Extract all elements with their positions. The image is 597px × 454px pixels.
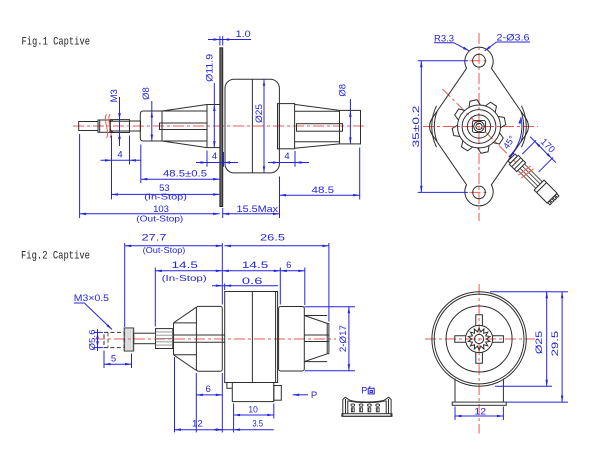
fig1 front bushing slot xyxy=(160,123,208,130)
connector wire break red xyxy=(519,165,531,177)
svg-text:4: 4 xyxy=(284,151,289,162)
svg-text:12: 12 xyxy=(192,419,203,430)
dim P arrow xyxy=(293,394,308,396)
dim 14.5 stator xyxy=(279,268,281,305)
fig2 rear cone xyxy=(304,316,327,324)
connector housing xyxy=(534,180,557,203)
fig2 centerline xyxy=(94,338,336,340)
fig2 right view outer circles xyxy=(432,292,526,386)
svg-text:Ø5.6: Ø5.6 xyxy=(87,329,97,350)
dim 15.5Max xyxy=(222,208,224,218)
fig1 front cylinder d11.9 xyxy=(207,104,220,106)
fig1 flange outline xyxy=(430,47,529,206)
fig1 rear cylinder d8 xyxy=(340,110,361,143)
svg-text:(In-Stop): (In-Stop) xyxy=(144,192,187,202)
fig1 front view centerline horizontal xyxy=(423,126,538,128)
fig2 screw hole lines xyxy=(174,334,225,336)
dim 53 In-Stop xyxy=(111,136,113,200)
fig1 front view centerline vertical xyxy=(478,33,480,221)
fig1 flange top hole centerline tick xyxy=(470,60,490,62)
svg-text:Ø25: Ø25 xyxy=(534,331,545,354)
dim 4 thread xyxy=(111,136,113,200)
dim 4 front cylinder xyxy=(206,151,208,167)
fig1 rear ring xyxy=(278,104,295,149)
fig1 shaft collar xyxy=(98,120,110,132)
svg-text:14.5: 14.5 xyxy=(172,260,198,271)
svg-text:(Out-Stop): (Out-Stop) xyxy=(136,214,183,224)
fig1 rear cone xyxy=(295,104,340,110)
fig1 hub square xyxy=(472,121,485,133)
fig2 stator block xyxy=(225,292,278,383)
fig2 rear shoulder xyxy=(304,315,327,317)
svg-text:35±0.2: 35±0.2 xyxy=(411,106,422,148)
fig1 shaft tip rod xyxy=(79,122,98,131)
fig1 rear slot xyxy=(297,124,343,132)
fig2 rear ring d17 xyxy=(279,307,305,372)
svg-text:3.5: 3.5 xyxy=(252,419,263,430)
svg-text:1.0: 1.0 xyxy=(236,29,251,40)
svg-text:6: 6 xyxy=(206,384,211,395)
dim 0.6 gap xyxy=(224,284,226,291)
P view connector outline xyxy=(343,397,391,416)
connector strain relief ribs xyxy=(508,154,517,163)
svg-text:Fig.1 Captive: Fig.1 Captive xyxy=(22,37,91,49)
svg-text:48.5±0.5: 48.5±0.5 xyxy=(163,169,207,180)
dim 48.5 rear xyxy=(359,148,361,200)
dim 170 xyxy=(522,140,536,154)
svg-text:29.5: 29.5 xyxy=(550,331,561,357)
fig2 right view centerlines xyxy=(425,338,535,340)
fig1 gear disc xyxy=(458,105,501,148)
dim d5.6 xyxy=(94,331,104,333)
dim 12 front xyxy=(174,357,176,432)
fig2 right view star gear xyxy=(468,328,490,350)
fig2 terminal latch xyxy=(274,386,282,401)
svg-text:12: 12 xyxy=(474,407,486,418)
fig2 front cone xyxy=(174,307,197,323)
dim 48.5+-0.5 xyxy=(140,145,142,184)
dim 27.7 Out-Stop xyxy=(124,243,126,327)
fig1 centerline xyxy=(73,125,365,127)
svg-text:M3: M3 xyxy=(109,89,120,102)
svg-text:Fig.2 Captive: Fig.2 Captive xyxy=(21,251,90,263)
fig1 mounting plate xyxy=(220,48,223,207)
dim 1.0 plate thickness xyxy=(219,36,221,45)
fig1 motor body xyxy=(225,79,279,173)
P view pins xyxy=(351,404,355,406)
svg-text:10: 10 xyxy=(248,404,257,415)
dim 14.5 In-Stop xyxy=(154,268,156,327)
svg-text:15.5Max: 15.5Max xyxy=(237,204,279,215)
svg-text:Ø8: Ø8 xyxy=(338,84,349,97)
fig1 flange top hole xyxy=(473,54,486,67)
dim 6 front ring xyxy=(195,373,197,432)
dim 29.5 xyxy=(552,291,568,293)
dim 35+-0.2 xyxy=(418,60,468,62)
connector pins xyxy=(555,194,559,198)
dim 2-d17 xyxy=(305,306,356,308)
dim 5 xyxy=(103,351,105,369)
P view bottom plate xyxy=(342,414,392,417)
dim 103 Out-Stop xyxy=(79,134,81,218)
fig1 center hole xyxy=(474,121,484,131)
fig2 leadscrew rod xyxy=(134,333,156,344)
svg-text:14.5: 14.5 xyxy=(242,260,268,271)
svg-text:27.7: 27.7 xyxy=(142,233,167,244)
fig2 rear hole lines xyxy=(305,334,329,336)
svg-text:6: 6 xyxy=(286,260,291,271)
fig2 terminal tab xyxy=(227,383,232,389)
dim 45 degree arc xyxy=(509,117,522,157)
fig2 right view cross tabs xyxy=(492,336,503,343)
svg-text:2-Ø17: 2-Ø17 xyxy=(338,325,349,352)
dim 4 rear ring xyxy=(294,151,296,167)
dim d25 right view xyxy=(490,291,552,293)
svg-text:Ø11.9: Ø11.9 xyxy=(205,54,216,82)
svg-text:P: P xyxy=(311,390,317,401)
fig1 gear teeth xyxy=(498,117,506,128)
svg-text:Ø8: Ø8 xyxy=(141,87,152,100)
fig1 body circle arcs xyxy=(522,106,527,147)
svg-text:(In-Stop): (In-Stop) xyxy=(162,273,207,283)
dim 12 tab width xyxy=(454,407,456,421)
svg-text:4: 4 xyxy=(117,149,122,160)
connector wires xyxy=(524,164,542,182)
fig2 right view terminal tab xyxy=(454,379,456,403)
svg-text:0.6: 0.6 xyxy=(242,276,263,287)
fig1 front bushing xyxy=(140,111,162,141)
fig1 M3 thread section xyxy=(110,120,129,133)
connector 45deg group xyxy=(505,129,582,206)
svg-text:26.5: 26.5 xyxy=(260,232,285,243)
dim 26.5 xyxy=(221,243,223,305)
fig1 stator circles xyxy=(462,110,496,144)
svg-text:48.5: 48.5 xyxy=(312,185,335,196)
fig2 front ring d17 xyxy=(196,306,222,371)
dim 3.5 xyxy=(214,429,274,431)
svg-text:(Out-Stop): (Out-Stop) xyxy=(143,245,186,255)
fig2 knurled nut xyxy=(124,328,134,351)
fig1 flange bottom hole centerline tick xyxy=(470,191,490,193)
dim 6 rear ring xyxy=(304,268,306,306)
fig2 rear end cap xyxy=(328,323,330,353)
svg-text:5: 5 xyxy=(111,353,116,364)
P view xiang glyph xyxy=(368,386,374,394)
dim 10 tab xyxy=(233,404,235,433)
fig1 break mark red xyxy=(105,114,107,138)
svg-text:4: 4 xyxy=(212,151,217,162)
fig1 front cone xyxy=(162,105,207,112)
fig1 front view centerline diagonal 45 xyxy=(443,89,517,163)
fig2 front cone small face xyxy=(173,323,175,355)
fig1 rod after thread xyxy=(130,121,141,131)
fig2 dashed nut outstop xyxy=(104,332,124,347)
fig2 spline gear xyxy=(156,329,173,349)
svg-text:P: P xyxy=(361,386,367,396)
fig1 flange bottom hole xyxy=(473,186,486,199)
